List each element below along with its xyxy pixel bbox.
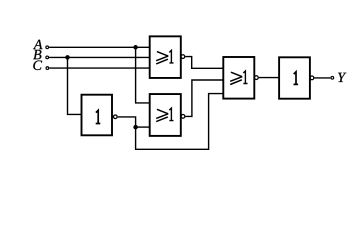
output terminal Y (331, 76, 334, 79)
wire U1 out to U3 (185, 57, 223, 69)
U1 output bubble (181, 55, 185, 59)
U3 label >=1 (230, 71, 247, 85)
U2 label >=1 (156, 108, 173, 122)
U5 output bubble (113, 115, 117, 119)
input terminal C (46, 67, 49, 70)
output label Y (338, 73, 346, 82)
U5 label 1 (96, 110, 101, 123)
wire A (49, 46, 150, 48)
U4 output bubble (310, 76, 314, 80)
wire C (49, 67, 149, 69)
or-gate U2 box (150, 94, 181, 136)
input label B (33, 50, 41, 59)
wire U3 to U4 (259, 77, 279, 79)
node U5 out junction (133, 125, 138, 130)
U3 output bubble (255, 76, 259, 80)
wire U5 out (118, 117, 136, 127)
not-gate U4 box (279, 57, 310, 98)
input terminal A (46, 46, 49, 49)
wire B to U5 (68, 57, 82, 114)
node B junction (65, 55, 70, 60)
input terminal B (46, 56, 49, 59)
wire junction to U2 (136, 126, 150, 128)
wire junction to U3 bottom route (136, 94, 224, 150)
wire U4 to Y (314, 77, 330, 79)
U2 output bubble (181, 115, 185, 119)
wire A to U2 (136, 47, 150, 103)
node A junction (133, 45, 138, 50)
wire B (49, 56, 150, 58)
or-gate U1 box (150, 36, 181, 78)
wire U2 out to U3 (185, 80, 223, 116)
input label A (33, 40, 43, 49)
input label C (33, 61, 42, 71)
U1 label >=1 (156, 50, 173, 64)
or-gate U3 box (223, 57, 254, 99)
U4 label 1 (294, 72, 299, 85)
not-gate U5 box (82, 95, 113, 136)
